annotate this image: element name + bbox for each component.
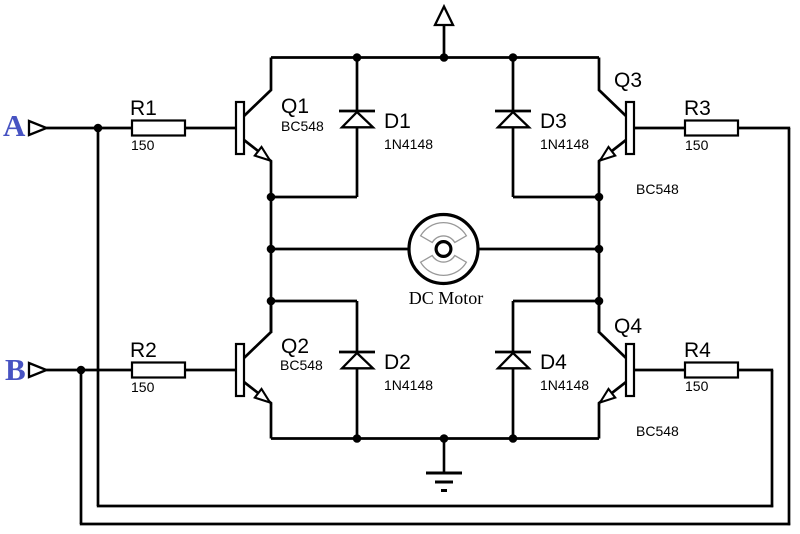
resistor R2 xyxy=(132,363,185,378)
svg-text:A: A xyxy=(3,108,26,143)
wire bottom outer B-to-R3 xyxy=(80,523,790,526)
wire right inner up to R4 xyxy=(771,370,774,507)
node B junction xyxy=(77,366,86,375)
svg-text:R4: R4 xyxy=(684,339,711,362)
svg-text:D1: D1 xyxy=(384,110,411,133)
svg-text:1N4148: 1N4148 xyxy=(384,136,433,152)
svg-text:1N4148: 1N4148 xyxy=(384,377,433,393)
node A junction xyxy=(94,124,103,133)
diode D3 xyxy=(495,58,531,198)
diode D1 xyxy=(339,58,375,198)
svg-text:B: B xyxy=(5,352,26,387)
svg-text:BC548: BC548 xyxy=(636,423,679,439)
wire motor left xyxy=(271,248,410,251)
wire Q4 base to R4 xyxy=(634,369,685,372)
resistor R1 xyxy=(132,121,185,136)
ground rail xyxy=(271,437,599,440)
node motor left xyxy=(267,245,276,254)
resistor R3 xyxy=(685,121,738,136)
wire D1 anode to Q1 emitter node xyxy=(271,196,357,199)
svg-text:BC548: BC548 xyxy=(281,118,324,134)
power supply rail xyxy=(271,56,599,59)
wire D2 cathode to Q2 collector node xyxy=(271,300,357,303)
svg-text:R1: R1 xyxy=(130,97,157,120)
resistor R4 xyxy=(685,363,738,378)
wire R3 right xyxy=(738,127,790,130)
svg-text:D4: D4 xyxy=(540,351,567,374)
wire input B to Q2 base xyxy=(47,369,237,372)
svg-text:DC Motor: DC Motor xyxy=(409,288,484,308)
svg-text:R2: R2 xyxy=(130,339,157,362)
node D2 bottom xyxy=(353,434,362,443)
transistor Q3 xyxy=(599,58,634,198)
svg-text:150: 150 xyxy=(685,378,709,394)
node D3 top xyxy=(509,53,518,62)
wire D4 cathode to Q4 collector node xyxy=(513,300,599,303)
transistor Q2 xyxy=(236,301,271,439)
diode D4 xyxy=(495,301,531,439)
motor M1 xyxy=(409,215,478,284)
wire D3 anode to Q3 emitter node xyxy=(513,196,599,199)
node D1 top xyxy=(353,53,362,62)
svg-text:1N4148: 1N4148 xyxy=(540,377,589,393)
wire input A to Q1 base xyxy=(47,127,237,130)
transistor Q1 xyxy=(236,58,271,198)
node ground junction xyxy=(440,434,449,443)
svg-text:Q3: Q3 xyxy=(614,69,642,92)
node Q2 collector junction xyxy=(267,297,276,306)
node motor right xyxy=(595,245,604,254)
wire right column Q3 emitter to Q4 collector xyxy=(598,197,601,333)
svg-text:1N4148: 1N4148 xyxy=(540,136,589,152)
input A connector xyxy=(29,121,47,135)
wire motor right xyxy=(477,248,599,251)
wire left column Q1 emitter to Q2 collector xyxy=(270,197,273,333)
svg-text:Q4: Q4 xyxy=(614,315,642,338)
svg-text:Q1: Q1 xyxy=(281,95,309,118)
svg-text:D3: D3 xyxy=(540,110,567,133)
power arrow VCC xyxy=(435,7,453,58)
node Q3 emitter junction xyxy=(595,193,604,202)
wire B junction down xyxy=(80,370,83,524)
ground symbol xyxy=(426,439,462,491)
diode D2 xyxy=(339,301,375,439)
wire A junction down xyxy=(97,128,100,506)
svg-text:BC548: BC548 xyxy=(280,357,323,373)
svg-text:BC548: BC548 xyxy=(636,181,679,197)
svg-text:R3: R3 xyxy=(684,97,711,120)
wire Q3 base to R3 xyxy=(634,127,685,130)
svg-text:150: 150 xyxy=(131,137,155,153)
node Q1 emitter junction xyxy=(267,193,276,202)
svg-text:D2: D2 xyxy=(384,351,411,374)
node Q4 collector junction xyxy=(595,297,604,306)
wire right outer up to R3 xyxy=(788,128,791,525)
node D4 bottom xyxy=(509,434,518,443)
svg-text:Q2: Q2 xyxy=(281,335,309,358)
input B connector xyxy=(29,363,47,377)
transistor Q4 xyxy=(599,301,634,439)
wire R4 right xyxy=(738,369,773,372)
node power junction xyxy=(440,53,449,62)
svg-text:150: 150 xyxy=(131,379,155,395)
svg-text:150: 150 xyxy=(685,137,709,153)
wire bottom inner A-to-R4 xyxy=(97,505,773,508)
